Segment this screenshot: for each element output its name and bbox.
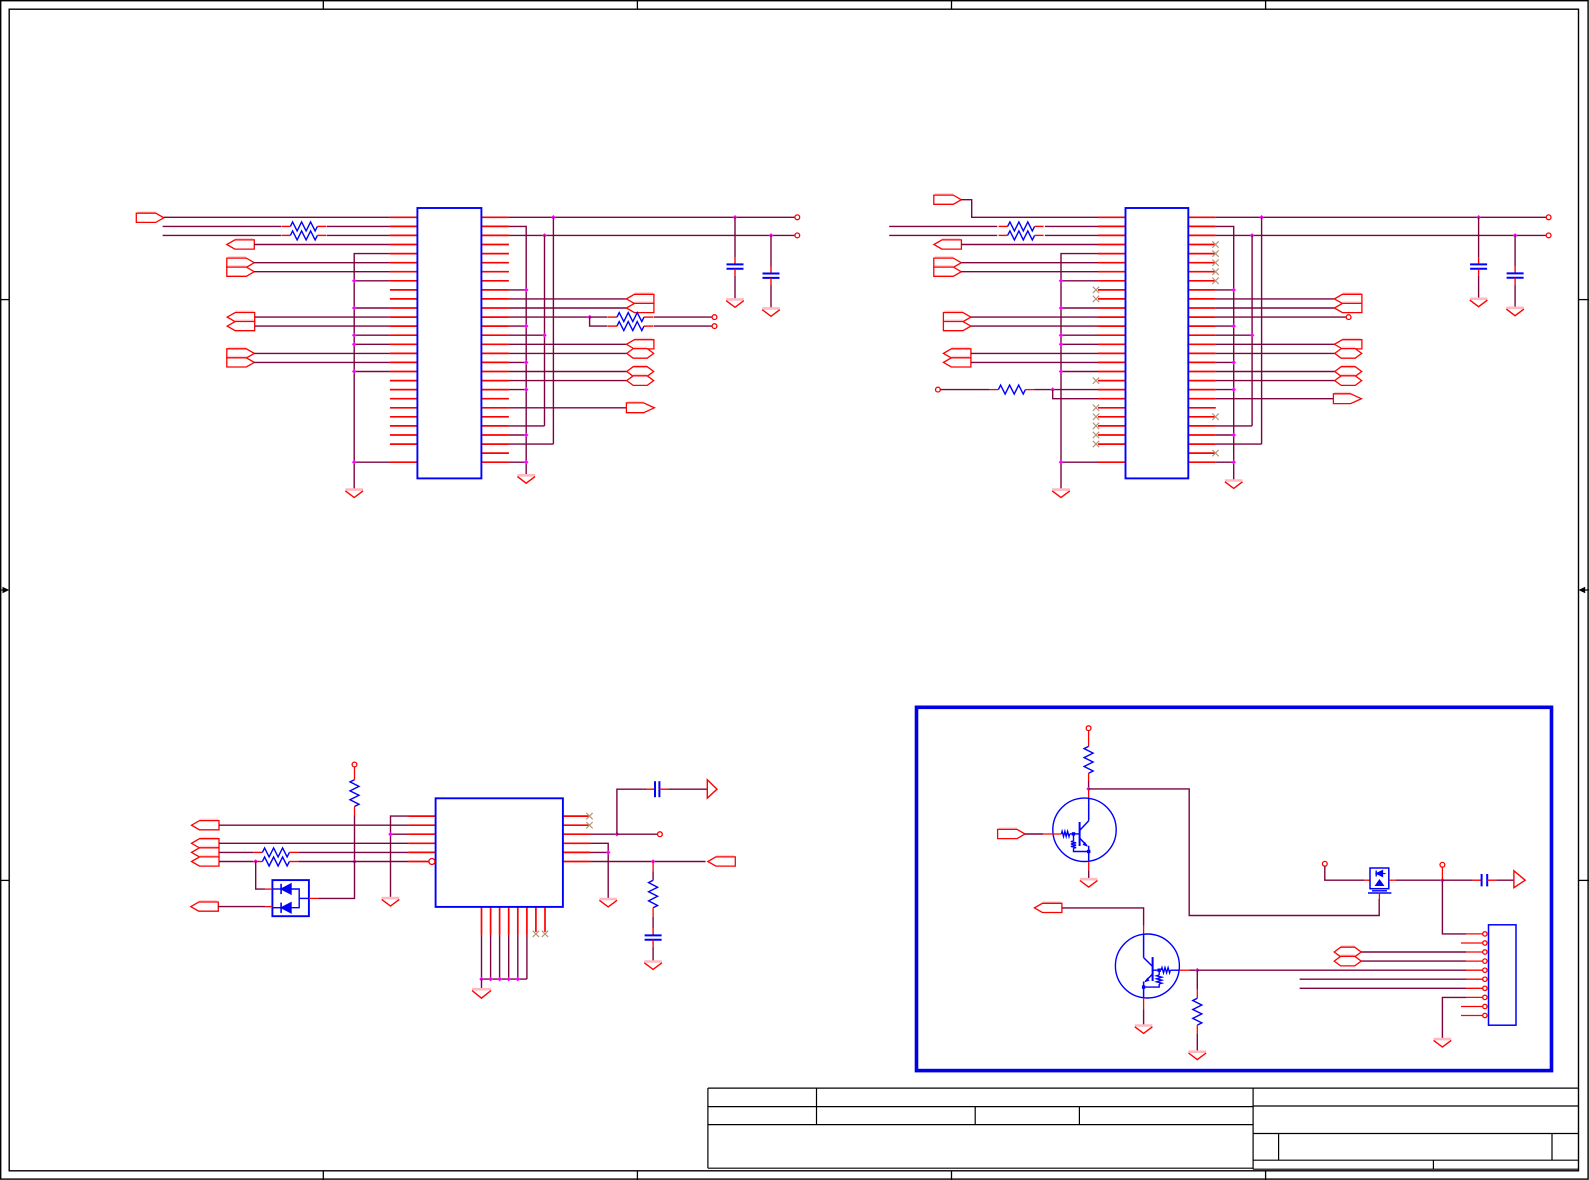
wire xyxy=(1180,969,1190,971)
connector pin xyxy=(1483,995,1487,999)
junction xyxy=(352,333,357,338)
port P37 xyxy=(708,856,736,866)
wire bus xyxy=(354,254,390,489)
wire xyxy=(354,816,356,862)
wire xyxy=(482,978,527,980)
wire xyxy=(590,843,608,898)
wire xyxy=(1143,1010,1145,1025)
wire xyxy=(509,352,627,354)
wire xyxy=(1300,987,1466,989)
junction xyxy=(516,977,521,982)
frame centering arrow right xyxy=(1579,587,1589,594)
wire xyxy=(327,234,390,236)
port P4 xyxy=(227,266,255,276)
junction xyxy=(1059,333,1064,338)
no-connect X xyxy=(1212,450,1218,456)
wire xyxy=(590,317,608,326)
wire xyxy=(1196,1034,1198,1051)
wire xyxy=(163,234,281,236)
junction xyxy=(488,977,493,982)
wire xyxy=(1189,969,1197,971)
wire bus xyxy=(1061,254,1098,489)
wire xyxy=(509,371,627,373)
wire xyxy=(509,443,554,445)
wire xyxy=(1045,225,1098,227)
wire xyxy=(391,816,409,897)
wire xyxy=(354,280,390,282)
no-connect pad xyxy=(352,762,357,767)
resistor R3 xyxy=(608,313,653,322)
wire xyxy=(1216,352,1335,354)
wire xyxy=(327,225,390,227)
port P42 xyxy=(1334,955,1361,966)
pin stub xyxy=(1466,996,1483,998)
port P41 xyxy=(1334,946,1361,957)
junction xyxy=(1250,333,1255,338)
transistor Q1 xyxy=(1053,798,1116,861)
junction xyxy=(352,460,357,465)
wire xyxy=(254,271,390,273)
wire xyxy=(509,461,526,463)
wire xyxy=(1216,461,1234,463)
wire xyxy=(219,851,253,853)
wire xyxy=(1088,773,1090,781)
wire xyxy=(254,352,390,354)
resistor R2 xyxy=(281,231,326,240)
no-connect pad xyxy=(658,832,663,837)
junction xyxy=(1059,279,1064,284)
pin stub xyxy=(1466,951,1483,953)
junction xyxy=(587,315,592,320)
wire xyxy=(1442,880,1466,934)
wire xyxy=(509,325,526,327)
wire xyxy=(254,262,390,264)
wire xyxy=(1196,1025,1198,1034)
port P21 xyxy=(943,321,971,331)
wire xyxy=(1216,371,1335,373)
no-connect X xyxy=(1093,432,1099,438)
capacitor C7 xyxy=(1442,874,1514,886)
no-connect pad xyxy=(795,233,800,238)
wire xyxy=(654,316,713,318)
wire xyxy=(590,833,617,835)
wire xyxy=(1216,443,1262,445)
ground xyxy=(1052,490,1070,498)
wire xyxy=(1216,226,1234,479)
wire xyxy=(961,244,1098,246)
junction xyxy=(1059,342,1064,347)
no-connect X xyxy=(1212,260,1218,266)
resistor R1 xyxy=(281,222,326,231)
wire xyxy=(590,851,608,853)
resistor R12 xyxy=(1084,746,1093,773)
ground xyxy=(1506,308,1524,316)
junction xyxy=(1440,878,1445,883)
wire xyxy=(1361,960,1466,962)
wire xyxy=(1216,316,1346,318)
wire xyxy=(481,979,483,988)
wire xyxy=(1216,234,1547,236)
port P20 xyxy=(943,312,971,322)
pin stub xyxy=(1461,1006,1483,1008)
pin stub xyxy=(1466,978,1483,980)
wire xyxy=(1361,951,1466,953)
no-connect X xyxy=(533,931,539,937)
junction xyxy=(352,279,357,284)
port P5 xyxy=(227,312,255,322)
wire xyxy=(256,862,266,890)
junction xyxy=(769,233,774,238)
wire xyxy=(255,316,390,318)
wire xyxy=(652,908,654,917)
junction xyxy=(1059,460,1064,465)
port P2 xyxy=(227,239,255,249)
resistor R8 xyxy=(350,780,359,807)
wire xyxy=(509,389,526,391)
wire xyxy=(509,216,795,218)
no-connect pad xyxy=(712,324,717,329)
wire xyxy=(971,316,1098,318)
no-connect X xyxy=(1093,405,1099,411)
connector pin xyxy=(1483,977,1487,981)
wire xyxy=(1034,389,1098,391)
wire xyxy=(509,434,526,436)
junction xyxy=(1059,369,1064,374)
ground xyxy=(1189,1052,1207,1060)
ground xyxy=(517,476,535,484)
port P33 xyxy=(192,847,220,857)
wire xyxy=(1216,434,1234,436)
resistor R6 xyxy=(999,231,1044,240)
IC U2 xyxy=(1126,208,1189,478)
wire xyxy=(354,343,390,345)
wire xyxy=(590,861,705,863)
diode D1 package xyxy=(272,880,309,916)
port P26 xyxy=(1334,339,1362,349)
wire xyxy=(1089,789,1380,916)
wire xyxy=(164,216,390,218)
wire xyxy=(509,343,627,345)
wire xyxy=(163,225,281,227)
no-connect pad xyxy=(1546,215,1551,220)
pin stub xyxy=(265,906,272,908)
wire xyxy=(1061,343,1098,345)
port P25 xyxy=(1334,302,1362,312)
port P36 xyxy=(707,780,717,798)
junction xyxy=(524,387,529,392)
wire xyxy=(1061,280,1098,282)
junction xyxy=(551,215,556,220)
wire xyxy=(617,789,644,834)
junction xyxy=(542,333,547,338)
wire xyxy=(1025,389,1034,391)
frame centering arrow left xyxy=(0,587,9,594)
junction xyxy=(506,977,511,982)
wire xyxy=(1196,970,1198,989)
capacitor C5 xyxy=(644,781,708,797)
no-connect X xyxy=(1093,441,1099,447)
wire xyxy=(971,352,1098,354)
wire xyxy=(617,833,658,835)
wire bus xyxy=(1261,217,1263,444)
wire xyxy=(354,461,390,463)
port P7 xyxy=(227,348,255,358)
pin stub xyxy=(1466,960,1483,962)
no-connect X xyxy=(1093,423,1099,429)
junction xyxy=(1050,387,1055,392)
junction xyxy=(524,460,529,465)
wire xyxy=(1088,870,1090,878)
junction xyxy=(1231,360,1236,365)
junction xyxy=(1231,460,1236,465)
wire xyxy=(1061,461,1098,463)
wire xyxy=(354,334,390,336)
assembly box xyxy=(917,707,1552,1070)
no-connect X xyxy=(1212,241,1218,247)
ground xyxy=(345,490,363,498)
resistor R10 xyxy=(253,857,298,866)
wire xyxy=(1216,380,1335,382)
wire xyxy=(1216,307,1335,309)
wire xyxy=(1465,933,1467,935)
no-connect pad xyxy=(795,215,800,220)
no-connect X xyxy=(542,931,548,937)
port P23 xyxy=(943,357,971,367)
resistor R5 xyxy=(999,222,1044,231)
junction xyxy=(606,850,611,855)
pin stub xyxy=(1466,987,1483,989)
junction xyxy=(1195,968,1200,973)
port P22 xyxy=(943,348,971,358)
pin stub xyxy=(1461,1015,1483,1017)
title block xyxy=(708,1088,1579,1169)
wire xyxy=(1442,997,1466,1038)
wire xyxy=(354,307,390,309)
no-connect pad xyxy=(1546,233,1551,238)
pin stub xyxy=(1461,942,1483,944)
wire xyxy=(1216,343,1335,345)
IC U3 pin stubs xyxy=(408,816,590,935)
wire xyxy=(509,226,526,474)
wire xyxy=(1143,998,1145,1010)
wire xyxy=(1062,908,1144,926)
wire bus xyxy=(544,235,546,426)
resistor R11 xyxy=(649,880,658,908)
wire xyxy=(509,298,627,300)
wire xyxy=(1088,781,1090,789)
junction xyxy=(388,832,393,837)
junction xyxy=(253,859,258,864)
port P28 xyxy=(1335,366,1362,377)
port P40 xyxy=(1514,871,1525,888)
port P29 xyxy=(1335,375,1362,386)
no-connect X xyxy=(1212,278,1218,284)
junction xyxy=(615,832,620,837)
junction xyxy=(524,288,529,293)
wire xyxy=(1216,398,1334,400)
wire xyxy=(1216,361,1234,363)
ground xyxy=(1225,481,1243,489)
no-connect X xyxy=(1093,296,1099,302)
wire xyxy=(354,371,390,373)
capacitor C4 xyxy=(1507,235,1524,307)
port P8 xyxy=(227,357,255,367)
wire xyxy=(219,842,408,844)
IC U1 pin stubs xyxy=(390,217,509,462)
wire bus xyxy=(552,217,554,444)
wire xyxy=(940,389,989,391)
no-connect X xyxy=(1093,414,1099,420)
wire xyxy=(1216,289,1234,291)
junction xyxy=(1259,215,1264,220)
wire xyxy=(509,234,795,236)
wire xyxy=(509,425,545,427)
port P12 xyxy=(627,348,654,359)
wire xyxy=(1061,307,1098,309)
no-connect X xyxy=(586,813,592,819)
wire xyxy=(1216,389,1234,391)
port P1 xyxy=(136,212,164,222)
wire xyxy=(1325,866,1365,880)
ground xyxy=(599,899,617,907)
port P38 xyxy=(998,828,1026,838)
junction xyxy=(1059,306,1064,311)
no-connect pad xyxy=(936,387,941,392)
connector J1 xyxy=(1489,925,1517,1025)
wire xyxy=(509,334,545,336)
wire xyxy=(509,289,526,291)
wire xyxy=(1025,833,1043,835)
wire xyxy=(318,862,354,899)
wire xyxy=(509,316,590,318)
wire xyxy=(509,307,627,309)
wire xyxy=(354,807,356,816)
pin stub xyxy=(1364,879,1370,881)
wire xyxy=(652,862,654,872)
IC U3 xyxy=(436,798,563,907)
wire xyxy=(1088,731,1090,747)
connector pin xyxy=(1483,1013,1487,1017)
wire xyxy=(391,833,409,835)
resistor R4 xyxy=(608,322,653,331)
wire xyxy=(254,361,390,363)
transistor Q3 xyxy=(1368,868,1391,893)
connector pin xyxy=(1483,959,1487,963)
wire xyxy=(961,200,1098,218)
ground xyxy=(644,962,662,970)
capacitor C2 xyxy=(763,235,780,307)
capacitor C3 xyxy=(1470,217,1487,298)
no-connect X xyxy=(1093,287,1099,293)
port P34 xyxy=(192,856,220,866)
wire xyxy=(1088,862,1090,871)
junction xyxy=(352,369,357,374)
wire xyxy=(218,906,265,908)
no-connect X xyxy=(1093,377,1099,383)
diode D1 xyxy=(272,884,299,908)
no-connect X xyxy=(1212,250,1218,256)
wire xyxy=(1216,325,1234,327)
wire xyxy=(1043,833,1061,835)
junction xyxy=(352,342,357,347)
port P32 xyxy=(192,838,220,848)
inverted pin bubble xyxy=(429,859,435,865)
junction xyxy=(1086,787,1091,792)
diode D2 xyxy=(272,898,309,913)
wire xyxy=(971,361,1098,363)
wire xyxy=(509,380,627,382)
wire xyxy=(1197,969,1466,971)
wire xyxy=(889,234,997,236)
port P31 xyxy=(192,820,220,830)
junction xyxy=(352,306,357,311)
wire xyxy=(509,361,526,363)
junction xyxy=(1476,215,1481,220)
wire xyxy=(652,871,654,880)
ground xyxy=(382,898,400,906)
port P11 xyxy=(626,339,654,349)
no-connect pad xyxy=(1440,862,1445,867)
junction xyxy=(542,233,547,238)
wire xyxy=(1300,978,1466,980)
no-connect pad xyxy=(1086,726,1091,731)
wire bus xyxy=(1251,235,1253,426)
wire xyxy=(219,824,408,826)
no-connect X xyxy=(1212,414,1218,420)
wire xyxy=(482,935,527,979)
wire xyxy=(961,262,1098,264)
ground xyxy=(1470,299,1488,307)
connector pin xyxy=(1483,941,1487,945)
connector pin xyxy=(1483,1004,1487,1008)
port P18 xyxy=(934,257,962,267)
wire xyxy=(652,917,654,929)
port P15 xyxy=(626,402,654,413)
pin stub xyxy=(309,897,319,899)
port P27 xyxy=(1335,348,1362,359)
pin stub xyxy=(1378,893,1380,899)
wire xyxy=(989,389,998,391)
port P19 xyxy=(934,266,962,276)
capacitor C1 xyxy=(727,217,744,298)
junction xyxy=(1250,233,1255,238)
junction xyxy=(1231,324,1236,329)
no-connect pad xyxy=(712,315,717,320)
no-connect X xyxy=(586,822,592,828)
transistor Q2 xyxy=(1115,934,1179,998)
junction xyxy=(524,324,529,329)
port P6 xyxy=(227,321,255,331)
port P9 xyxy=(626,293,654,303)
port P10 xyxy=(626,302,654,312)
wire xyxy=(299,861,409,863)
port P17 xyxy=(934,239,962,249)
ground xyxy=(1080,879,1098,887)
ground xyxy=(472,989,491,998)
wire xyxy=(254,244,390,246)
resistor R9 xyxy=(253,848,298,857)
junction xyxy=(1231,387,1236,392)
pin stub xyxy=(265,888,272,890)
connector pin xyxy=(1483,986,1487,990)
connector pin xyxy=(1483,932,1487,936)
junction xyxy=(1231,433,1236,438)
wire xyxy=(961,271,1098,273)
wire xyxy=(1216,298,1335,300)
port P3 xyxy=(227,257,255,267)
wire xyxy=(889,225,997,227)
junction xyxy=(1513,233,1518,238)
